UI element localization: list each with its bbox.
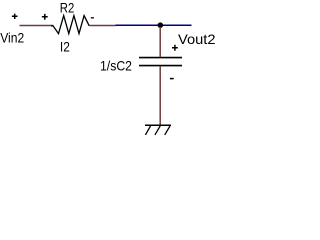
wire : node segment to Vout2 (navy)	[116, 24, 192, 26]
svg-text:I2: I2	[60, 39, 70, 55]
svg-text:R2: R2	[60, 0, 75, 16]
polarity + at Vin2	[12, 14, 18, 19]
polarity + at resistor left	[42, 14, 48, 20]
svg-text:Vout2: Vout2	[178, 31, 216, 47]
ground hatch stroke 1	[145, 126, 150, 135]
polarity - at resistor right	[91, 17, 94, 19]
wire : node down to capacitor top plate (maroon)	[159, 27, 161, 57]
capacitor C2 bottom plate	[139, 65, 182, 67]
ground hatch stroke 3	[165, 126, 170, 135]
svg-text:1/sC2: 1/sC2	[100, 58, 132, 74]
wire : input wire left of R2 (maroon)	[20, 25, 54, 27]
ground bar	[145, 124, 171, 126]
wire : capacitor bottom plate down to ground (maroon)	[159, 66, 161, 124]
resistor R2	[51, 16, 89, 34]
wire : R2 to node (maroon)	[89, 25, 115, 27]
svg-text:Vin2: Vin2	[0, 30, 24, 46]
ground hatch stroke 2	[155, 126, 160, 135]
polarity - at capacitor bottom	[170, 78, 174, 80]
polarity + at capacitor top	[172, 45, 178, 51]
capacitor C2 top plate	[139, 57, 182, 59]
junction node dot	[158, 22, 164, 28]
